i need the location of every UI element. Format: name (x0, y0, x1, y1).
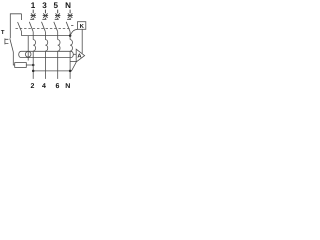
terminal clamp pole 2 (42, 10, 48, 20)
toroid core (19, 51, 74, 57)
svg-text:3: 3 (42, 1, 47, 10)
wire K to amplifier (81, 29, 83, 53)
pole 1 conductor lower (32, 51, 34, 79)
pole N conductor lower (69, 51, 71, 79)
pole 1 winding (33, 40, 35, 51)
svg-text:A: A (77, 54, 81, 60)
test network line (22, 35, 71, 37)
aux contact lower wire (21, 32, 23, 36)
switch blade pole N (66, 22, 70, 32)
pole 3 conductor upper (57, 32, 59, 40)
junction N test (69, 34, 72, 37)
resistor R (15, 63, 27, 68)
pole 3 conductor lower (57, 51, 59, 79)
junction N supply (69, 70, 72, 73)
test button blade (10, 39, 14, 53)
amplifier supply from N (70, 61, 76, 63)
supply wire L1 to N (33, 62, 76, 71)
test wire loop through core (25, 52, 31, 58)
svg-text:T: T (1, 29, 5, 36)
svg-text:4: 4 (42, 83, 46, 90)
wire to resistor (13, 52, 14, 65)
pole 1 conductor upper (32, 32, 34, 40)
junction L1 test (32, 64, 35, 67)
pole 2 conductor upper (44, 32, 46, 40)
pole 3 winding (58, 40, 60, 51)
svg-text:N: N (65, 83, 70, 90)
pole 2 conductor lower (44, 51, 46, 79)
svg-text:5: 5 (54, 1, 59, 10)
svg-text:2: 2 (30, 83, 34, 90)
switch blade pole 2 (42, 22, 46, 32)
aux switch blade (18, 22, 22, 32)
switch blade pole 1 (29, 22, 33, 32)
svg-text:1: 1 (31, 1, 36, 10)
terminal clamp pole N (67, 10, 73, 20)
junction L1 supply (32, 70, 35, 73)
mechanical linkage (dashed) (16, 27, 71, 29)
terminal clamp pole 3 (55, 10, 61, 20)
test wire top corner (10, 14, 21, 38)
svg-text:6: 6 (55, 83, 59, 90)
aux contact stub (21, 14, 23, 20)
terminal clamp pole 1 (30, 10, 36, 20)
pole N winding (70, 40, 72, 51)
linkage dash at K (71, 24, 73, 26)
pole N conductor upper (69, 32, 71, 40)
svg-text:N: N (65, 1, 71, 10)
wire resistor to L1 (26, 64, 33, 66)
wire N to K (70, 29, 77, 35)
switch blade pole 3 (54, 22, 58, 32)
svg-text:K: K (80, 23, 85, 30)
pole 2 winding (45, 40, 47, 51)
test drop wire through core (27, 36, 29, 61)
relay K box (78, 22, 86, 30)
amplifier A (76, 49, 84, 62)
test push-button (5, 38, 8, 44)
secondary lead (73, 53, 76, 55)
